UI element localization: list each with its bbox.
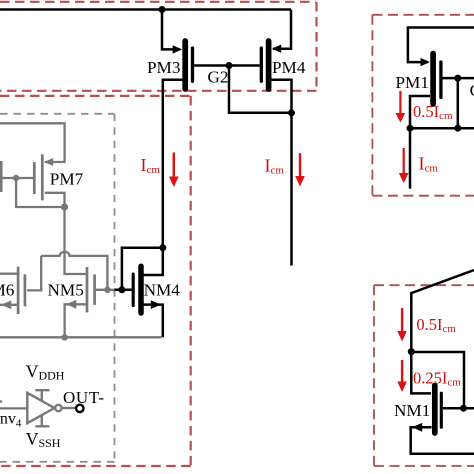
wire NM5 gate lead [96, 289, 115, 291]
wire VDD top rail [0, 8, 291, 11]
svg-text:NM1: NM1 [394, 401, 430, 420]
junction dot PM1 gate [454, 75, 461, 82]
transistor PM8 gate bar sliver at left edge [0, 161, 3, 192]
wire PM1 gate riser [457, 78, 460, 128]
wire NM4 gate riser to node A [122, 248, 163, 290]
junction dot PM1 node right [454, 125, 461, 132]
junction dot NM1 gate [460, 405, 467, 412]
wire PM7 gate lead and feedback to drain [0, 178, 65, 207]
svg-text:PM7: PM7 [50, 170, 84, 189]
junction dot VDD rail [159, 6, 166, 13]
arrow Icm right branch [295, 153, 305, 186]
wire gate line G2 PM3-PM4 [194, 64, 259, 67]
wire PM3 drain down to node A [163, 80, 183, 248]
arrow 0.5Icm NM1 branch [397, 308, 407, 342]
svg-text:PM4: PM4 [272, 58, 306, 77]
wire diagonal feed into NM1 box [411, 270, 474, 352]
svg-text:PM3: PM3 [147, 58, 180, 77]
node G2 junction dot [226, 62, 233, 69]
wire NM1 node to gate riser [411, 352, 464, 408]
arrow Icm left branch [169, 153, 179, 188]
red dashed box 1 (PM3/PM4 common-mode mirror block) [0, 2, 317, 91]
junction dot PM7 gate net [13, 175, 19, 181]
transistor PM4 [261, 41, 281, 89]
wire NM1 gate lead [443, 407, 474, 410]
transistor PM1 [421, 54, 441, 105]
wire PM1 gate lead G1 [443, 77, 474, 80]
junction dot PM7 drain [61, 203, 68, 210]
svg-text:G2: G2 [208, 67, 229, 86]
wire NM4 source lead down to rail [143, 305, 163, 338]
wire stub at left edge [0, 400, 2, 402]
svg-text:NM5: NM5 [48, 281, 84, 300]
wire PM4 source lead [273, 10, 291, 49]
junction dot PM1 drain node [407, 125, 414, 132]
wire PM1 drain down [410, 96, 430, 189]
wire G2 riser down to PM4 drain [229, 66, 292, 113]
gray dashed box (replica bias / low-voltage block) [0, 114, 115, 462]
wire PM1 source rail [408, 28, 474, 63]
node A junction dot (PM3 drain / NM4) [159, 244, 166, 251]
wire NM1 source lead to rail [411, 427, 474, 453]
wire NM6 gate riser [27, 256, 41, 291]
OUT- terminal ring [76, 405, 83, 412]
wire NM5 source lead down to rail [65, 304, 86, 337]
wire gray source rail [0, 336, 162, 338]
svg-text:PM1: PM1 [396, 73, 429, 92]
wire gray supply to PM7 source [0, 123, 65, 162]
svg-text:NM6: NM6 [0, 281, 15, 300]
transistor PM3 [173, 41, 193, 89]
wire PM7 drain down to NM5 drain [45, 193, 86, 274]
transistor NM4 [133, 266, 161, 313]
junction dot NM5 gate [104, 287, 110, 293]
red dashed box 4 (NM1 slice block) [374, 285, 474, 466]
junction dot NM1 drain node [408, 348, 415, 355]
wire NM6 drain lead [0, 273, 17, 275]
transistor NM6 [1, 267, 25, 314]
wire NM4 gate lead [115, 289, 132, 292]
transistor NM5 [66, 267, 95, 313]
wire gate net NM6-NM5 with hop over drain wire [41, 252, 107, 290]
wire NM1 drain lead [411, 352, 431, 394]
transistor PM7 [34, 154, 53, 200]
junction dot PM4 drain [288, 109, 295, 116]
svg-text:G1: G1 [470, 81, 474, 100]
junction dot gray source rail [61, 334, 67, 340]
transistor NM1 [412, 386, 441, 434]
wire inverter input [0, 407, 27, 409]
arrow Icm PM1 branch [399, 148, 409, 183]
wire PM1 drain node line [410, 127, 474, 130]
wire NM6 source lead [0, 304, 17, 306]
red dashed box 2 (left main comparator block) [0, 96, 191, 466]
arrow 0.25Icm NM1 branch [397, 360, 407, 392]
junction dot NM4 gate [118, 286, 125, 293]
wire PM3 source lead [162, 10, 180, 50]
svg-text:NM4: NM4 [144, 281, 181, 300]
inverter Inv4 [27, 390, 76, 426]
wire NM4 drain lead [143, 248, 163, 275]
svg-text:OUT-: OUT- [63, 388, 104, 407]
red dashed box 3 (PM1 slice block) [372, 15, 474, 196]
wire PM4 drain down (right Icm branch) [271, 80, 291, 266]
arrow 0.5Icm PM1 [396, 91, 406, 123]
